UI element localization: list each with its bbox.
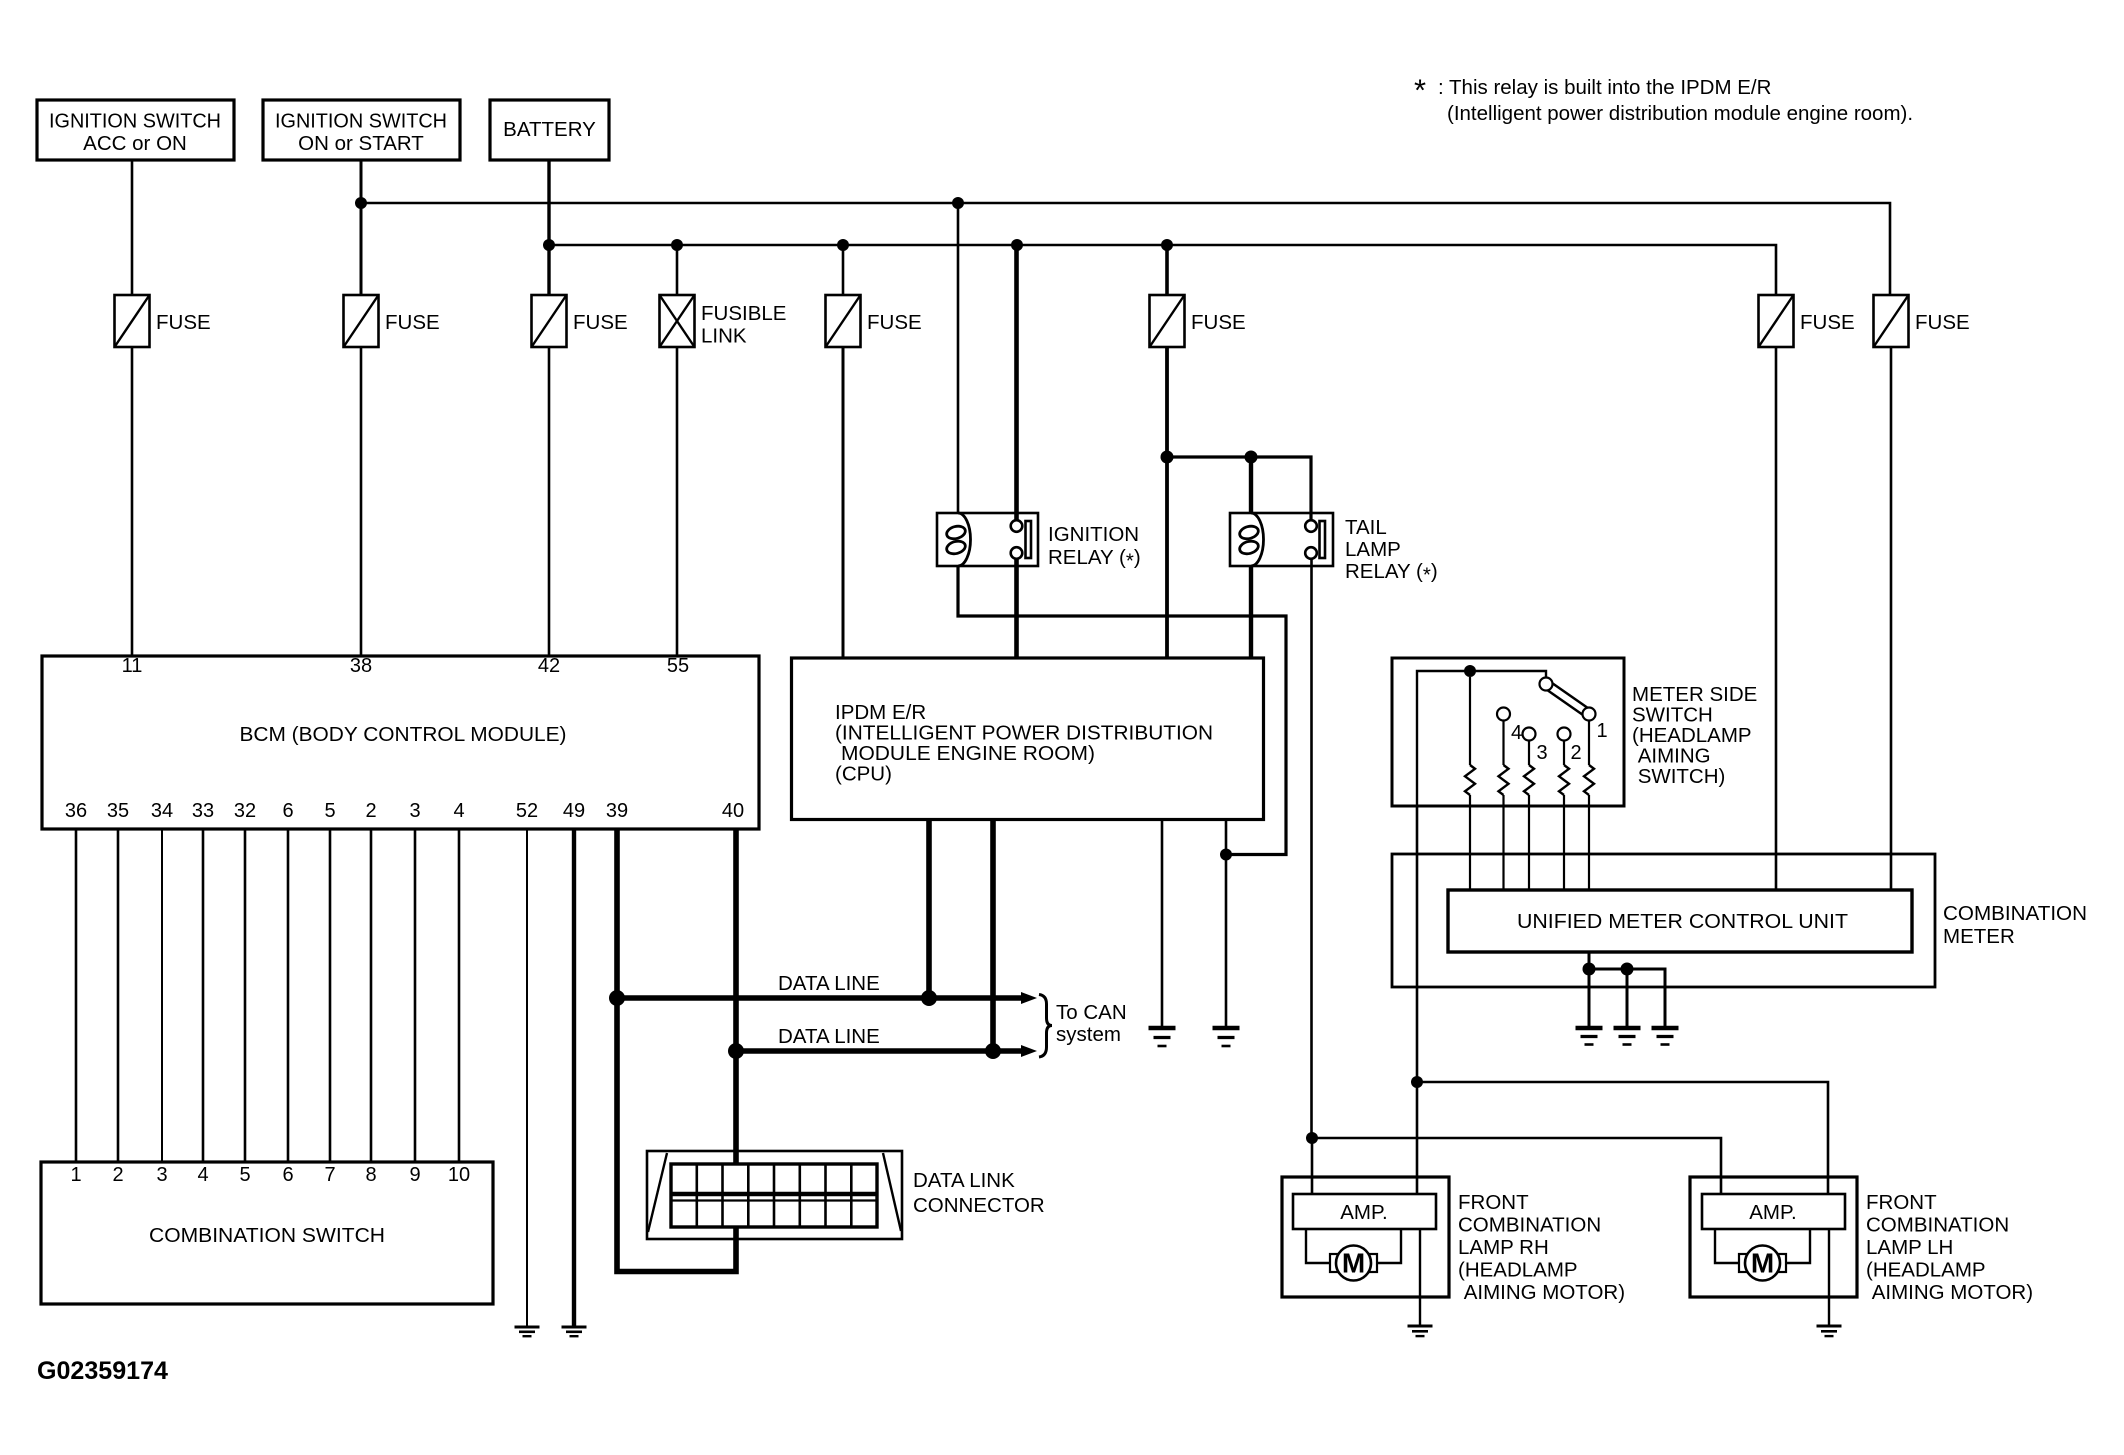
wire headlamp aiming feed left — [1416, 806, 1419, 1194]
svg-text:IGNITION SWITCH: IGNITION SWITCH — [275, 110, 447, 133]
node dot bus2 x1167 — [1161, 239, 1173, 251]
fuse F2 — [344, 295, 440, 347]
svg-text:4: 4 — [1511, 722, 1522, 744]
wire tail relay coil bottom to IPDM top — [1249, 565, 1253, 658]
svg-text:FUSE: FUSE — [385, 311, 440, 334]
ground BCM 49 — [562, 1327, 587, 1336]
svg-text:*: * — [1414, 73, 1426, 108]
node dot bus1 x361 — [355, 197, 367, 209]
wire F4 to IPDM top — [842, 347, 845, 658]
box unified meter control unit — [1448, 890, 1912, 952]
wire IPDM data pin 2 — [990, 820, 996, 1052]
svg-text:: This relay is built into the: : This relay is built into the IPDM E/R — [1438, 76, 1771, 99]
node dot bus1 x958 — [952, 197, 964, 209]
svg-text:LAMP LH: LAMP LH — [1866, 1236, 1953, 1259]
svg-text:33: 33 — [192, 800, 214, 822]
svg-text:SWITCH): SWITCH) — [1632, 765, 1725, 788]
wire F7 down to unified meter control unit — [1890, 347, 1893, 890]
svg-text:ON or START: ON or START — [298, 132, 424, 155]
svg-text:32: 32 — [234, 800, 256, 822]
svg-text:AMP.: AMP. — [1749, 1201, 1796, 1224]
wire F6 down to unified meter control unit — [1775, 347, 1778, 890]
svg-text:(HEADLAMP: (HEADLAMP — [1866, 1259, 1986, 1282]
svg-text:DATA LINK: DATA LINK — [913, 1169, 1015, 1192]
svg-text:4: 4 — [197, 1164, 208, 1186]
wire BCM 4 to comb sw 10 — [458, 829, 461, 1162]
svg-text:(CPU): (CPU) — [835, 763, 892, 786]
bus lower (battery feed) — [549, 245, 1776, 295]
svg-text:COMBINATION: COMBINATION — [1943, 902, 2087, 925]
wire ignition relay contact to IPDM top — [1014, 558, 1019, 658]
box BATTERY — [490, 100, 609, 160]
wire F2 to BCM pin 38 — [360, 347, 363, 656]
svg-text:COMBINATION: COMBINATION — [1866, 1214, 2009, 1237]
svg-text:TAIL: TAIL — [1345, 516, 1387, 539]
wire IPDM pin to ground (x1162) — [1161, 820, 1164, 1029]
wire fuse F5 top — [1165, 245, 1169, 295]
svg-text:2: 2 — [1570, 742, 1581, 764]
svg-text:9: 9 — [409, 1164, 420, 1186]
brace to CAN system — [1039, 995, 1052, 1058]
wire branch to ignition relay coil — [957, 203, 960, 514]
wire BCM 34 to comb sw 3 — [161, 829, 163, 1162]
wire tail feed into RH lamp — [1311, 1138, 1314, 1194]
node dot tail feed to lamps — [1306, 1132, 1318, 1144]
svg-text:35: 35 — [107, 800, 129, 822]
wire fuse F4 top — [842, 245, 845, 295]
fuse F1 — [115, 295, 211, 347]
svg-text:38: 38 — [350, 655, 372, 677]
svg-text:LAMP: LAMP — [1345, 538, 1401, 561]
ground UMCU 2 — [1614, 1028, 1641, 1045]
node dot IPDM data 1 on upper line — [921, 990, 937, 1006]
svg-text:FUSE: FUSE — [1915, 311, 1970, 334]
ground LH lamp — [1817, 1326, 1842, 1336]
box IGNITION SWITCH ACC or ON — [37, 100, 234, 160]
node dot data line 39 — [609, 990, 625, 1006]
ground RH lamp — [1408, 1326, 1433, 1336]
bus upper (ON or START feed) — [361, 203, 1890, 295]
svg-text:METER: METER — [1943, 925, 2015, 948]
node dot aiming feed — [1411, 1076, 1423, 1088]
label ignition relay — [1048, 523, 1141, 573]
svg-text:42: 42 — [538, 655, 560, 677]
svg-text:(Intelligent power distributio: (Intelligent power distribution module e… — [1447, 102, 1913, 125]
svg-text:BCM (BODY CONTROL MODULE): BCM (BODY CONTROL MODULE) — [240, 723, 567, 746]
wire ign sw on/start to fuse F2 — [360, 160, 363, 295]
svg-text:COMBINATION SWITCH: COMBINATION SWITCH — [149, 1224, 385, 1247]
wire BCM 6 to comb sw 6 — [287, 829, 290, 1162]
switch contact 2 — [1558, 728, 1571, 741]
svg-text:RELAY (*): RELAY (*) — [1345, 560, 1438, 587]
fuse F7 — [1874, 295, 1970, 347]
svg-text:5: 5 — [324, 800, 335, 822]
svg-text:6: 6 — [282, 800, 293, 822]
svg-text:2: 2 — [112, 1164, 123, 1186]
svg-text:55: 55 — [667, 655, 689, 677]
label front combination lamp RH — [1458, 1191, 1625, 1304]
wire ign sw acc to fuse F1 — [131, 160, 134, 295]
svg-text:6: 6 — [282, 1164, 293, 1186]
wire switch common — [1417, 671, 1546, 806]
label DATA LINK CONNECTOR — [913, 1169, 1045, 1217]
svg-text:8: 8 — [365, 1164, 376, 1186]
node dot bus2 x1017 — [1011, 239, 1023, 251]
wire battery down to fuse F3 — [547, 160, 550, 295]
svg-text:LINK: LINK — [701, 325, 747, 348]
ground UMCU 3 — [1652, 1028, 1679, 1045]
node dot IPDM pin x1226 — [1220, 849, 1232, 861]
svg-text:CONNECTOR: CONNECTOR — [913, 1194, 1045, 1217]
svg-text:G02359174: G02359174 — [37, 1357, 168, 1385]
box BCM — [42, 656, 759, 829]
resistor R2 (pos 4) — [1499, 721, 1509, 891]
svg-text:AIMING MOTOR): AIMING MOTOR) — [1458, 1281, 1625, 1304]
wire BCM 35 to comb sw 2 — [117, 829, 120, 1162]
svg-text:FRONT: FRONT — [1866, 1191, 1937, 1214]
wire LH lamp ground — [1828, 1229, 1830, 1326]
wire tail relay feed horizontal — [1167, 457, 1311, 521]
svg-text:BATTERY: BATTERY — [503, 118, 596, 141]
motor M LH — [1715, 1229, 1810, 1281]
svg-text:AMP.: AMP. — [1340, 1201, 1387, 1224]
motor M RH — [1306, 1229, 1401, 1281]
label To CAN system — [1056, 1001, 1127, 1046]
svg-text:FUSE: FUSE — [1800, 311, 1855, 334]
relay U1 ignition relay — [937, 513, 1038, 566]
node dot tail relay coil feed — [1245, 451, 1258, 464]
label METER SIDE SWITCH — [1632, 683, 1757, 788]
svg-text:To CAN: To CAN — [1056, 1001, 1127, 1024]
wire tail relay coil top — [1249, 457, 1253, 514]
svg-text:FRONT: FRONT — [1458, 1191, 1529, 1214]
wire tail feed to LH lamp — [1312, 1138, 1721, 1194]
svg-text:1: 1 — [70, 1164, 81, 1186]
switch lever — [1540, 678, 1596, 721]
wire RH lamp ground — [1419, 1229, 1421, 1326]
wire BCM 40 data line (CAN-H) — [733, 829, 739, 1164]
svg-text:IGNITION SWITCH: IGNITION SWITCH — [49, 110, 221, 133]
wire BCM 33 to comb sw 4 — [202, 829, 205, 1162]
svg-text:FUSE: FUSE — [867, 311, 922, 334]
svg-text:M: M — [1342, 1248, 1365, 1279]
wire BCM 52 to ground — [526, 829, 528, 1327]
resistor R3 (pos 3) — [1524, 741, 1534, 891]
wire BCM 32 to comb sw 5 — [244, 829, 247, 1162]
svg-text:4: 4 — [453, 800, 464, 822]
node dot bus2 x843 — [837, 239, 849, 251]
svg-text:FUSIBLE: FUSIBLE — [701, 302, 786, 325]
box combination meter — [1392, 854, 1935, 987]
fusible link FL — [660, 295, 787, 348]
svg-text:34: 34 — [151, 800, 173, 822]
node dot switch common — [1464, 665, 1476, 677]
wire IPDM data pin 1 — [926, 820, 932, 999]
wire to ignition relay contact — [1014, 245, 1019, 521]
box COMBINATION SWITCH — [41, 1162, 493, 1304]
node dot bus2 x677 — [671, 239, 683, 251]
node dot umcu gnd 1 — [1583, 963, 1596, 976]
fuse F3 — [532, 295, 628, 347]
resistor R1 (common) — [1465, 677, 1475, 890]
wire ignition relay coil return to IPDM side — [958, 565, 1286, 855]
svg-text:system: system — [1056, 1023, 1121, 1046]
box IPDM E/R — [792, 658, 1264, 820]
wire BCM 49 to ground — [572, 829, 576, 1327]
wire F1 to BCM pin 11 — [131, 347, 134, 656]
svg-text:5: 5 — [239, 1164, 250, 1186]
wire IPDM pin to ground (x1226) — [1225, 820, 1228, 1029]
box IGNITION SWITCH ON or START — [263, 100, 460, 160]
ground UMCU 1 — [1576, 1028, 1603, 1045]
box front combination lamp LH — [1690, 1177, 1857, 1297]
svg-text:DATA LINE: DATA LINE — [778, 1025, 880, 1048]
svg-text:FUSE: FUSE — [1191, 311, 1246, 334]
wire BCM 3 to comb sw 9 — [414, 829, 417, 1162]
box meter side switch — [1392, 658, 1624, 806]
svg-text:(HEADLAMP: (HEADLAMP — [1458, 1259, 1578, 1282]
svg-text:1: 1 — [1596, 720, 1607, 742]
svg-text:40: 40 — [722, 800, 744, 822]
label front combination lamp LH — [1866, 1191, 2033, 1304]
node dot relay feed x1167 y457 — [1161, 451, 1174, 464]
svg-text:AIMING MOTOR): AIMING MOTOR) — [1866, 1281, 2033, 1304]
node dot umcu gnd 2 — [1621, 963, 1634, 976]
wire data line upper — [617, 995, 1023, 1001]
wire aiming feed to LH lamp — [1417, 1082, 1828, 1194]
wire tail relay contact down to lamps — [1310, 558, 1313, 1138]
svg-text:COMBINATION: COMBINATION — [1458, 1214, 1601, 1237]
label combination meter — [1943, 902, 2087, 948]
wire fusible link top — [676, 245, 679, 295]
ground IPDM 2 — [1213, 1028, 1240, 1046]
label tail lamp relay — [1345, 516, 1438, 587]
arrowhead data line lower — [1021, 1045, 1037, 1057]
fuse F6 — [1759, 295, 1855, 347]
wire FL to BCM pin 55 — [676, 347, 679, 656]
node dot data line 40 — [728, 1043, 744, 1059]
wire BCM 39 data line (CAN-L) — [617, 829, 736, 1272]
node dot bus2 x549 — [543, 239, 555, 251]
wire BCM 2 to comb sw 8 — [370, 829, 373, 1162]
svg-text:3: 3 — [156, 1164, 167, 1186]
wire data line lower — [736, 1048, 1023, 1054]
arrowhead data line upper — [1021, 992, 1037, 1004]
svg-text:M: M — [1751, 1248, 1774, 1279]
svg-text:IGNITION: IGNITION — [1048, 523, 1139, 546]
svg-text:36: 36 — [65, 800, 87, 822]
svg-text:52: 52 — [516, 800, 538, 822]
node dot IPDM data 2 on lower line — [985, 1043, 1001, 1059]
note text relay built into IPDM — [1438, 76, 1913, 125]
svg-text:RELAY (*): RELAY (*) — [1048, 546, 1141, 573]
relay U2 tail lamp relay — [1230, 513, 1333, 566]
svg-text:3: 3 — [409, 800, 420, 822]
resistor R5 (pos 1) — [1584, 721, 1594, 891]
wire BCM 5 to comb sw 7 — [329, 829, 332, 1162]
fuse F4 — [826, 295, 922, 347]
svg-text:10: 10 — [448, 1164, 470, 1186]
svg-text:UNIFIED METER CONTROL UNIT: UNIFIED METER CONTROL UNIT — [1517, 910, 1848, 933]
wire F5 down into IPDM top — [1165, 347, 1169, 658]
svg-text:FUSE: FUSE — [573, 311, 628, 334]
switch contact 3 — [1523, 728, 1536, 741]
svg-text:DATA LINE: DATA LINE — [778, 972, 880, 995]
switch contact 4 — [1497, 708, 1510, 721]
resistor R4 (pos 2) — [1559, 741, 1569, 891]
wire F3 to BCM pin 42 — [548, 347, 551, 656]
wire BCM 36 to comb sw 1 — [75, 829, 78, 1162]
svg-text:ACC or ON: ACC or ON — [83, 132, 187, 155]
svg-text:7: 7 — [324, 1164, 335, 1186]
svg-text:49: 49 — [563, 800, 585, 822]
wire UMCU ground link — [1589, 952, 1665, 1028]
svg-text:2: 2 — [365, 800, 376, 822]
fuse F5 — [1150, 295, 1246, 347]
svg-text:39: 39 — [606, 800, 628, 822]
svg-text:11: 11 — [122, 655, 143, 677]
svg-text:LAMP RH: LAMP RH — [1458, 1236, 1549, 1259]
box front combination lamp RH — [1282, 1177, 1449, 1297]
ground IPDM 1 — [1149, 1028, 1176, 1046]
svg-text:FUSE: FUSE — [156, 311, 211, 334]
data link connector DLC — [647, 1151, 902, 1239]
svg-text:3: 3 — [1536, 742, 1547, 764]
ground BCM 52 — [515, 1327, 540, 1336]
